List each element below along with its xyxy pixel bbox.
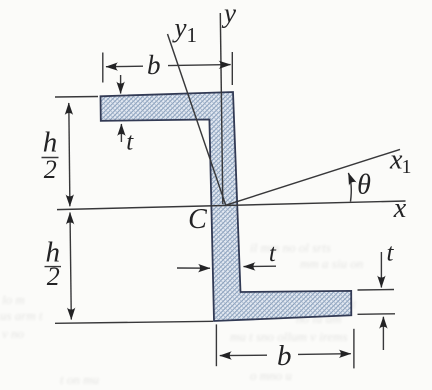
svg-text:v no: v no — [2, 326, 25, 341]
svg-text:h: h — [43, 127, 58, 159]
svg-text:y1: y1 — [172, 13, 197, 48]
svg-text:x: x — [393, 193, 407, 224]
svg-text:t on mu: t on mu — [60, 372, 100, 387]
svg-text:2: 2 — [44, 155, 57, 184]
svg-text:2: 2 — [47, 262, 60, 291]
svg-text:t: t — [387, 240, 395, 267]
svg-text:t: t — [269, 240, 277, 267]
svg-text:C: C — [188, 204, 207, 235]
svg-text:θ: θ — [357, 170, 371, 201]
svg-text:x1: x1 — [389, 145, 411, 179]
svg-text:t: t — [126, 129, 134, 156]
svg-text:mm a siu on: mm a siu on — [300, 256, 363, 271]
svg-text:b: b — [277, 340, 292, 372]
svg-text:il mm no ol srts: il mm no ol srts — [250, 240, 331, 255]
svg-text:b: b — [147, 50, 161, 80]
svg-text:us arm t: us arm t — [0, 308, 43, 323]
svg-text:lo m: lo m — [2, 292, 25, 307]
svg-text:y: y — [221, 0, 236, 28]
